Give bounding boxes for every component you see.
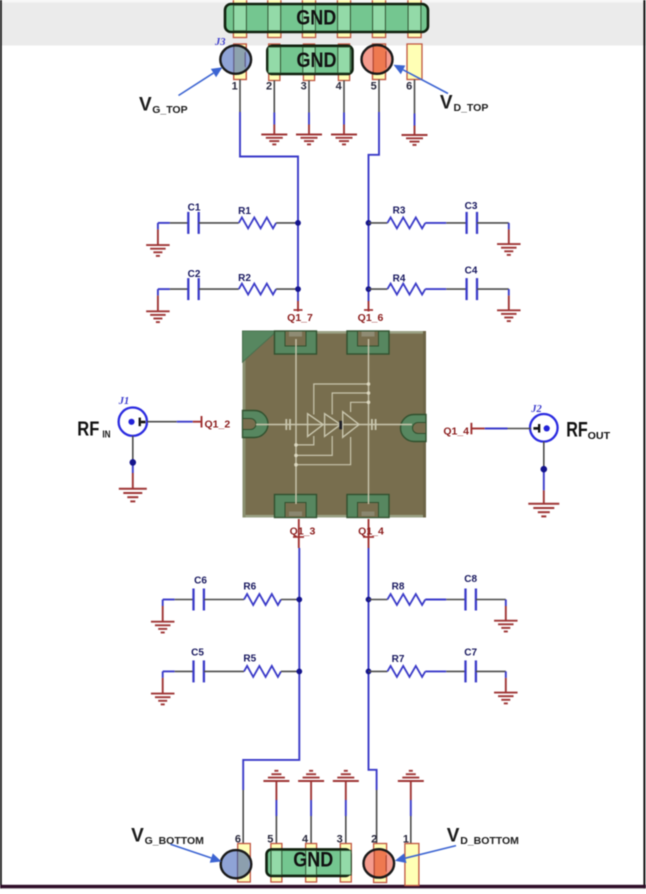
- capacitor C2: [188, 269, 201, 300]
- connector J2 (RF_OUT SMA): [530, 414, 558, 442]
- GND header bar top pin overlays: [234, 5, 421, 31]
- wire junction to R8: [369, 599, 388, 601]
- svg-text:J3: J3: [214, 37, 226, 48]
- ground (C6): [151, 600, 175, 633]
- wire pin6 to ground: [414, 80, 416, 136]
- wire R2 to junction: [276, 288, 298, 290]
- wire ground to bottom pin 1: [410, 781, 412, 847]
- wire C8 to ground corner: [476, 599, 506, 601]
- ground (top pin 2): [261, 135, 287, 145]
- connector J1 (RF_IN SMA): [119, 408, 147, 436]
- svg-text:R8: R8: [392, 582, 405, 593]
- port stub Q1_7: [294, 301, 303, 312]
- svg-text:2: 2: [371, 834, 377, 846]
- port stub Q1_6: [364, 301, 373, 312]
- die amplifier stage 2 triangle: [325, 414, 341, 437]
- ground (C2): [146, 289, 170, 322]
- junction dot R7: [366, 669, 372, 675]
- die RF pad (left): [243, 411, 268, 438]
- junction dot J1 ground: [130, 459, 137, 466]
- die trace vertical left: [295, 339, 297, 504]
- svg-text:D_BOTTOM: D_BOTTOM: [460, 835, 519, 847]
- wire J1 to port Q1_2: [147, 416, 202, 428]
- GND header bar (bottom): [267, 849, 351, 876]
- junction dot J2 ground: [541, 466, 548, 473]
- pin pad 1 (top): [234, 44, 247, 80]
- wire C7 to ground corner: [476, 670, 506, 672]
- svg-text:6: 6: [406, 81, 412, 93]
- label V_D_TOP: [440, 93, 488, 115]
- label V_G_BOTTOM: [131, 826, 204, 848]
- die pad (bottom right): [347, 495, 389, 518]
- junction dot R5: [296, 669, 302, 675]
- svg-text:J1: J1: [118, 396, 130, 407]
- die feedback trace upper 1: [314, 384, 369, 415]
- port stub Q1_3: [293, 519, 304, 548]
- pin pad 2 (top): [269, 44, 280, 81]
- die center marker: [339, 421, 342, 430]
- svg-text:C5: C5: [191, 648, 204, 659]
- pin pad 6 (bottom): [238, 844, 251, 883]
- die pad bond marks: [289, 332, 375, 517]
- wire junction to R7: [369, 670, 388, 672]
- ground (C3): [497, 223, 521, 255]
- svg-text:V: V: [139, 95, 152, 116]
- svg-text:R6: R6: [243, 582, 256, 593]
- die amplifier stage 1 triangle: [308, 414, 324, 437]
- capacitor C7: [464, 648, 477, 683]
- second bar pin overlays: [268, 47, 350, 73]
- svg-text:4: 4: [336, 81, 343, 93]
- pin pad 4 (top): [338, 44, 349, 81]
- die output cap marks: [372, 419, 376, 430]
- connector J3 bulb (V_G_TOP, pin 1): [220, 45, 251, 73]
- wire R6 to junction: [281, 599, 299, 601]
- svg-text:R2: R2: [238, 273, 251, 284]
- ground (C7): [494, 671, 518, 703]
- ground (C1): [146, 223, 170, 256]
- label RF_OUT: [566, 418, 610, 442]
- svg-text:R7: R7: [392, 654, 405, 665]
- svg-text:5: 5: [267, 834, 273, 846]
- capacitor C6: [194, 576, 208, 611]
- svg-text:C3: C3: [465, 201, 478, 212]
- die input cap marks: [286, 419, 290, 430]
- GND header bar (second, top): [267, 46, 352, 74]
- svg-text:C4: C4: [465, 266, 478, 277]
- svg-text:Q1_4: Q1_4: [443, 426, 469, 438]
- resistor R7: [387, 654, 425, 677]
- wire junction to R4: [369, 288, 388, 290]
- junction dot R8: [366, 597, 372, 603]
- svg-text:Q1_4: Q1_4: [358, 526, 384, 538]
- pin pad 5 (bottom): [271, 844, 282, 883]
- svg-text:3: 3: [337, 834, 343, 846]
- wire ground to bottom pin 3: [345, 781, 347, 847]
- svg-text:C6: C6: [194, 576, 207, 587]
- capacitor C1: [188, 203, 201, 234]
- arrow V_G_BOTTOM: [171, 844, 222, 863]
- wire R7 to C7: [425, 670, 465, 672]
- arrow V_D_BOTTOM: [395, 846, 456, 863]
- wire ground to bottom pin 5: [275, 781, 277, 847]
- pin pad 1 (bottom): [405, 844, 419, 886]
- capacitor C5: [191, 648, 204, 683]
- pin pad 6 (top): [407, 44, 422, 80]
- pin pad 5 (top): [373, 44, 386, 80]
- wire port Q1_4 to J2: [471, 423, 531, 435]
- die trace vertical right: [368, 339, 370, 504]
- ground (top pin 6): [402, 135, 428, 145]
- svg-text:2: 2: [266, 81, 272, 93]
- svg-text:G_TOP: G_TOP: [152, 104, 187, 116]
- port stub Q1_4 (die bottom): [363, 519, 374, 548]
- ground (bottom pin 4): [298, 771, 324, 781]
- resistor R6: [243, 582, 281, 606]
- wire C3 to ground corner: [477, 222, 509, 224]
- ground (bottom pin 3): [333, 771, 359, 781]
- connector bulb pin 6 (V_G_BOTTOM): [221, 850, 252, 878]
- svg-text:V: V: [447, 826, 460, 847]
- wire R3 to C3: [425, 222, 466, 224]
- wire ground to bottom pin 4: [310, 781, 312, 847]
- die pad (bottom left): [275, 495, 317, 518]
- connector bulb pin 2 (V_D_BOTTOM): [364, 849, 395, 877]
- svg-text:RF: RF: [566, 418, 588, 441]
- capacitor C3: [465, 201, 478, 234]
- wire pin1 to node Q1_7 column: [240, 80, 298, 302]
- wire junction to R3: [369, 222, 388, 224]
- ground (C8): [494, 600, 518, 632]
- die trace RF through line: [256, 424, 412, 426]
- wire J2 shield to ground: [543, 442, 545, 504]
- svg-text:C1: C1: [188, 203, 201, 214]
- die feedback trace upper 3: [351, 402, 369, 412]
- pin pad 3 (top): [303, 44, 314, 81]
- svg-text:GND: GND: [293, 849, 333, 872]
- resistor R2: [238, 273, 276, 295]
- svg-text:C7: C7: [464, 648, 477, 659]
- wire C5 row left: [163, 670, 194, 672]
- amplifier die U1 body: [243, 331, 427, 518]
- label V_G_TOP: [139, 95, 188, 117]
- resistor R3: [387, 206, 425, 229]
- svg-text:GND: GND: [297, 49, 337, 72]
- die feedback trace lower 2: [296, 436, 332, 455]
- wire C6 to R6: [204, 599, 244, 601]
- wire C6 row left: [163, 599, 194, 601]
- die feedback trace lower 1: [296, 436, 314, 445]
- wire C4 to ground corner: [477, 288, 509, 290]
- pin pad 2 (bottom): [374, 844, 387, 883]
- die trace junction dots: [294, 382, 370, 466]
- die feedback trace lower 3: [296, 437, 351, 465]
- wire C1 row left: [158, 222, 188, 224]
- die pad (top right): [347, 331, 389, 354]
- die RF pad (right): [401, 415, 427, 442]
- ground (C4): [497, 289, 521, 321]
- svg-text:R3: R3: [393, 206, 406, 217]
- svg-text:5: 5: [371, 81, 377, 93]
- die chamfer corner: [243, 331, 278, 362]
- ground (bottom pin 5): [263, 771, 289, 781]
- arrow V_D_TOP: [394, 65, 449, 94]
- svg-text:OUT: OUT: [588, 431, 611, 442]
- svg-text:1: 1: [232, 81, 238, 93]
- capacitor C8: [464, 574, 477, 611]
- wire pin5 to node Q1_6 column: [369, 80, 380, 302]
- GND header bar top pin pads: [233, 0, 421, 38]
- svg-text:Q1_3: Q1_3: [290, 526, 316, 538]
- label RF_IN: [77, 417, 110, 440]
- resistor R5: [243, 654, 281, 677]
- resistor R8: [387, 582, 425, 606]
- wire pin2 to ground: [273, 81, 275, 135]
- svg-text:V: V: [440, 93, 453, 114]
- wire R4 to C4: [425, 288, 466, 290]
- wire Q1_3 column to pin 6 (bottom): [243, 548, 299, 850]
- ground (J2): [528, 504, 559, 517]
- wire pin4 to ground: [343, 81, 345, 135]
- wire Q1_4 column to pin 2 (bottom): [369, 548, 377, 850]
- bottom bar pin overlays: [271, 850, 351, 875]
- junction dot R1: [295, 220, 301, 226]
- wire J1 shield to ground: [132, 436, 134, 489]
- die pad (top left): [275, 331, 317, 354]
- svg-text:6: 6: [235, 834, 241, 846]
- svg-text:Q1_7: Q1_7: [287, 312, 313, 324]
- svg-text:R1: R1: [238, 206, 251, 217]
- wire pin3 to ground: [308, 81, 310, 135]
- wire R8 to C8: [425, 599, 465, 601]
- wire C5 to R5: [204, 670, 244, 672]
- svg-text:Q1_2: Q1_2: [205, 419, 231, 431]
- svg-text:V: V: [131, 826, 144, 847]
- svg-text:C2: C2: [188, 269, 201, 280]
- wire R5 to junction: [281, 670, 299, 672]
- wire C2 row left: [158, 288, 188, 290]
- junction dot R6: [296, 597, 302, 603]
- junction dot R3: [366, 220, 372, 226]
- pin pad 3 (bottom): [340, 844, 351, 883]
- wire C1 to R1: [199, 222, 239, 224]
- svg-text:4: 4: [302, 834, 309, 846]
- svg-text:IN: IN: [102, 429, 110, 440]
- ground (C5): [151, 671, 175, 704]
- die amplifier stage 3 triangle: [343, 412, 359, 438]
- pin pad 4 (bottom): [306, 844, 317, 883]
- die feedback trace upper 2: [332, 393, 368, 415]
- svg-text:1: 1: [403, 834, 409, 846]
- svg-text:R4: R4: [393, 274, 406, 285]
- junction dot R2: [295, 286, 301, 292]
- GND header bar (top): [225, 4, 428, 32]
- wire R1 to junction: [276, 222, 298, 224]
- connector bulb pin 5 (V_D_TOP): [362, 45, 393, 74]
- svg-text:GND: GND: [296, 7, 336, 30]
- svg-text:RF: RF: [77, 417, 99, 440]
- ground (top pin 4): [331, 135, 357, 145]
- ground (J1): [119, 489, 147, 502]
- resistor R4: [387, 274, 425, 295]
- svg-text:Q1_6: Q1_6: [358, 312, 384, 324]
- ground (bottom pin 1): [398, 771, 424, 781]
- wire C2 to R2: [199, 288, 239, 290]
- capacitor C4: [465, 266, 478, 301]
- svg-text:3: 3: [301, 81, 307, 93]
- svg-text:R5: R5: [243, 654, 256, 665]
- svg-text:C8: C8: [464, 574, 477, 585]
- junction dot R4: [366, 286, 372, 292]
- arrow V_G_TOP: [179, 67, 223, 95]
- label V_D_BOTTOM: [447, 826, 519, 848]
- resistor R1: [238, 206, 276, 228]
- svg-text:D_TOP: D_TOP: [454, 102, 489, 114]
- ground (top pin 3): [296, 135, 322, 145]
